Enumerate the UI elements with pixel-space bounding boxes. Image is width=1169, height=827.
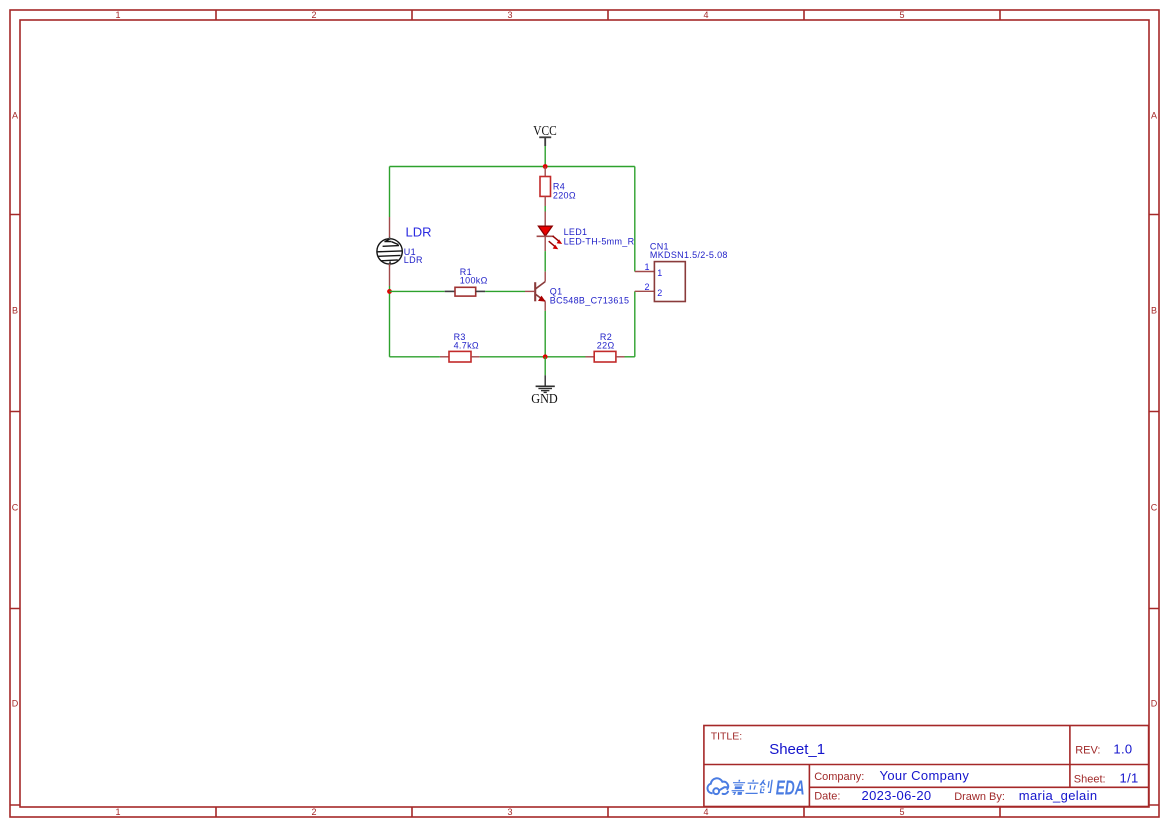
svg-text:A: A	[1151, 110, 1157, 120]
svg-text:22Ω: 22Ω	[597, 340, 615, 350]
power symbol VCC	[539, 137, 551, 146]
junction bottom	[543, 354, 548, 359]
transistor Q1 emitter pin	[544, 301, 546, 311]
border column ticks bottom	[216, 807, 1000, 817]
svg-text:MKDSN1.5/2-5.08: MKDSN1.5/2-5.08	[650, 250, 728, 260]
svg-text:B: B	[1151, 305, 1157, 315]
svg-text:220Ω: 220Ω	[553, 191, 576, 201]
svg-text:2: 2	[311, 10, 316, 20]
wire LED to Q1	[544, 251, 546, 272]
svg-text:Your Company: Your Company	[880, 768, 970, 783]
svg-text:REV:: REV:	[1075, 744, 1100, 756]
svg-text:1.0: 1.0	[1113, 741, 1132, 756]
wire right rail lower	[634, 291, 636, 357]
wire top rail	[390, 166, 635, 168]
wire bottom rail right corner	[625, 356, 635, 358]
svg-text:GND: GND	[531, 391, 558, 406]
svg-text:1: 1	[115, 10, 120, 20]
svg-text:2: 2	[311, 807, 316, 817]
transistor Q1	[535, 282, 545, 302]
svg-text:1/1: 1/1	[1120, 770, 1139, 785]
svg-text:Sheet_1: Sheet_1	[769, 741, 825, 758]
connector CN1 pin 1	[635, 271, 655, 273]
wire GND stem	[544, 357, 546, 375]
svg-text:2: 2	[657, 288, 662, 298]
net label VCC	[533, 123, 557, 138]
resistor R3 pin left	[440, 356, 449, 358]
svg-text:LDR: LDR	[406, 225, 432, 240]
svg-text:3: 3	[507, 10, 512, 20]
wire R4 to LED	[544, 206, 546, 212]
svg-text:B: B	[12, 305, 18, 315]
svg-text:EDA: EDA	[776, 778, 805, 800]
border column labels bottom	[115, 807, 904, 817]
svg-text:100kΩ: 100kΩ	[460, 276, 488, 286]
border column labels top	[115, 10, 904, 20]
resistor R2	[594, 351, 616, 362]
transistor Q1 base pin	[525, 290, 535, 292]
svg-text:Date:: Date:	[814, 791, 840, 803]
svg-text:VCC: VCC	[533, 123, 557, 138]
border row ticks left	[10, 215, 20, 806]
border row labels left	[12, 110, 19, 708]
svg-text:4.7kΩ: 4.7kΩ	[454, 340, 479, 350]
svg-text:4: 4	[703, 807, 708, 817]
junction top	[543, 164, 548, 169]
svg-text:C: C	[12, 502, 19, 512]
svg-text:2023-06-20: 2023-06-20	[862, 788, 932, 803]
transistor Q1 emitter arrow	[538, 296, 546, 302]
svg-text:D: D	[12, 698, 19, 708]
svg-text:maria_gelain: maria_gelain	[1019, 788, 1098, 803]
title block outline	[704, 726, 1149, 807]
wire Q1 emitter down	[544, 311, 546, 357]
svg-text:D: D	[1151, 698, 1158, 708]
LED1 pin anode	[544, 212, 546, 227]
svg-text:BC548B_C713615: BC548B_C713615	[550, 296, 630, 306]
resistor R1 pin left	[445, 290, 455, 292]
resistor R4 pin top	[544, 167, 546, 177]
ground symbol	[536, 375, 555, 392]
border row ticks right	[1149, 215, 1159, 806]
svg-text:1: 1	[644, 262, 649, 272]
photoresistor U1 pin top	[389, 217, 391, 239]
LED1 cathode bar	[537, 235, 554, 237]
svg-text:1: 1	[115, 807, 120, 817]
logo glyph li	[745, 780, 759, 794]
wire base row left	[390, 290, 445, 292]
svg-text:LED-TH-5mm_R: LED-TH-5mm_R	[564, 236, 635, 246]
svg-text:A: A	[12, 110, 18, 120]
logo cloud icon	[707, 778, 728, 794]
svg-text:Company:: Company:	[814, 771, 864, 783]
resistor R4	[540, 177, 551, 197]
svg-text:C: C	[1151, 502, 1158, 512]
transistor Q1 collector pin	[544, 272, 546, 282]
connector CN1 pin 2	[635, 290, 655, 292]
svg-text:4: 4	[703, 10, 708, 20]
wire base row right	[485, 290, 525, 292]
connector CN1 body	[654, 262, 685, 302]
photoresistor U1	[377, 237, 402, 267]
border row labels right	[1151, 110, 1158, 708]
logo glyph chuang	[758, 780, 773, 793]
svg-text:Sheet:: Sheet:	[1074, 774, 1106, 786]
photoresistor U1 pin bottom	[389, 264, 391, 286]
svg-text:3: 3	[507, 807, 512, 817]
junction left mid	[387, 289, 392, 294]
resistor R1 pin right	[476, 290, 485, 292]
svg-text:LDR: LDR	[404, 255, 423, 265]
resistor R3	[449, 351, 471, 362]
resistor R2 pin left	[586, 356, 595, 358]
wire bottom rail mid	[480, 356, 586, 358]
wire VCC stem	[544, 146, 546, 167]
LED1 triangle	[538, 226, 552, 236]
resistor R1	[455, 287, 476, 296]
wire left rail upper	[389, 167, 391, 218]
resistor R2 pin right	[616, 356, 625, 358]
LED1 light arrows	[549, 236, 563, 249]
logo glyph jia	[731, 780, 746, 795]
resistor R3 pin right	[471, 356, 480, 358]
svg-text:TITLE:: TITLE:	[711, 730, 743, 742]
LED1 pin cathode	[544, 236, 546, 251]
svg-text:5: 5	[899, 807, 904, 817]
wire right rail upper	[634, 167, 636, 272]
svg-text:Drawn By:: Drawn By:	[954, 791, 1005, 803]
border column ticks top	[216, 10, 1000, 20]
wire bottom rail left	[390, 356, 440, 358]
resistor R4 pin bottom	[544, 196, 546, 206]
svg-text:2: 2	[644, 282, 649, 292]
svg-text:1: 1	[657, 268, 662, 278]
svg-text:5: 5	[899, 10, 904, 20]
wire left rail lower	[389, 286, 391, 357]
